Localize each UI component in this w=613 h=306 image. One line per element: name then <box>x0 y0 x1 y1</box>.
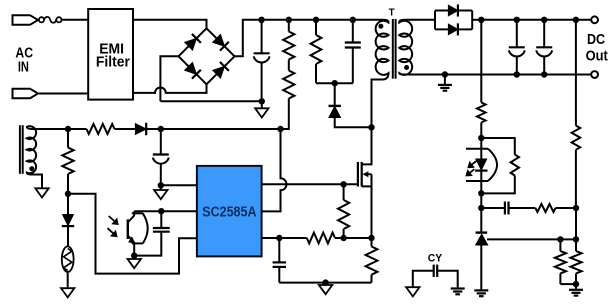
node <box>478 205 484 211</box>
aux divider resistor R11 <box>67 129 69 148</box>
wire <box>472 19 481 21</box>
wire <box>133 20 207 29</box>
wire <box>316 82 353 84</box>
node (source) <box>368 235 374 241</box>
node (drain) <box>368 124 374 130</box>
transformer core <box>392 19 394 79</box>
node <box>158 208 164 214</box>
wire <box>288 60 290 71</box>
wire (DC- rail) <box>405 74 592 76</box>
lower divider resistor R8 <box>559 239 561 251</box>
node (VDD) <box>277 126 283 132</box>
node <box>65 126 71 132</box>
svg-text:T: T <box>389 7 396 19</box>
wire (bridge plus riser) <box>235 20 384 57</box>
output diode D6 <box>448 5 458 16</box>
wire (LED bias from DC+) <box>480 20 482 103</box>
aux winding <box>27 126 42 188</box>
filter capacitor C4 <box>160 211 162 228</box>
wire (drain) <box>371 127 373 164</box>
gate-source resistor R12 <box>343 184 345 200</box>
wire <box>480 193 482 208</box>
node <box>478 135 484 141</box>
connector J1 (AC line) <box>13 15 39 25</box>
transformer T secondary winding <box>399 20 412 75</box>
ground (sense) <box>319 285 332 294</box>
node <box>573 205 579 211</box>
bridge diode D1 (upper-left) <box>184 34 201 51</box>
wire <box>67 227 69 247</box>
wire <box>405 19 436 21</box>
output diode D7 <box>448 24 458 35</box>
LED bias resistor R4 <box>477 103 486 123</box>
aux phasing dot <box>29 166 34 171</box>
startup resistor R1 <box>288 20 290 32</box>
wire <box>67 272 69 288</box>
VDD capacitor C3 <box>160 129 162 155</box>
svg-text:Filter: Filter <box>96 54 130 70</box>
upper divider resistor R7 <box>575 20 577 126</box>
wire (reference) <box>487 238 576 240</box>
sense resistor R14 <box>371 238 373 247</box>
node <box>442 71 448 77</box>
node <box>65 191 71 197</box>
wire (opto collector to IC) <box>134 210 197 212</box>
wire <box>62 19 89 21</box>
node (snubber C top) <box>350 17 356 23</box>
wire (DC+ rail) <box>481 19 591 21</box>
node <box>340 235 346 241</box>
fuse F1 <box>39 17 44 22</box>
svg-text:SC2585A: SC2585A <box>202 203 256 220</box>
bridge diamond wires <box>179 28 207 56</box>
DC+ terminal <box>591 16 598 23</box>
output capacitor C6 <box>543 20 545 48</box>
node <box>158 126 164 132</box>
ground (opto emitter) <box>133 256 135 259</box>
ground (CY primary side) <box>406 287 419 296</box>
Y-capacitor CY <box>433 265 435 277</box>
wire (VDD rail) <box>32 128 87 130</box>
optocoupler U2 LED <box>480 138 482 160</box>
node <box>514 17 520 23</box>
node (primary ground) <box>259 98 265 104</box>
EMI filter block <box>88 9 133 100</box>
wire (aux FB routing) <box>68 194 197 274</box>
node (snubber R top) <box>313 17 319 23</box>
shunt regulator U3 (TL431) <box>480 208 482 233</box>
ground (bottom left) <box>61 288 74 297</box>
ground (secondary) <box>444 75 446 85</box>
ground (VDD cap) <box>160 185 162 190</box>
node <box>514 71 520 77</box>
compensation resistor R6 <box>535 204 555 212</box>
primary phasing dot <box>378 24 383 29</box>
node <box>478 190 484 196</box>
node <box>541 17 547 23</box>
svg-text:IN: IN <box>18 59 29 75</box>
CS filter resistor R13 <box>307 233 335 244</box>
snubber capacitor C2 <box>352 20 354 43</box>
wire (VDD pin with hop) <box>262 129 287 211</box>
surge resistor RV1 <box>62 246 74 272</box>
node (bulk cap top) <box>258 17 264 23</box>
svg-text:Out: Out <box>586 49 608 65</box>
IC U1 SC2585A <box>197 166 262 257</box>
wire (gate drive) <box>262 183 358 185</box>
node <box>573 17 579 23</box>
bridge diode D3 (lower-left) <box>184 62 201 79</box>
snubber resistor R3 <box>315 20 317 35</box>
wire <box>146 128 280 130</box>
VDD series resistor R10 <box>87 124 115 134</box>
node <box>541 71 547 77</box>
ground (aux winding) <box>35 188 48 197</box>
bridge diode D2 (upper-right) <box>212 34 229 51</box>
wire <box>38 19 42 21</box>
startup resistor R2 <box>283 71 294 99</box>
wire <box>38 93 88 95</box>
compensation capacitor C7 <box>481 207 505 209</box>
optocoupler U2 phototransistor <box>127 219 129 239</box>
svg-text:DC: DC <box>587 32 606 48</box>
VDD diode D8 <box>135 124 146 135</box>
bulk capacitor C1 <box>261 20 263 54</box>
node (DC+ rail) <box>478 17 484 23</box>
node <box>573 281 579 287</box>
opto LED housing <box>466 148 488 150</box>
wire (EMI bottom to bridge, hop over) <box>133 84 207 93</box>
wire (bridge minus to primary ground) <box>160 56 178 101</box>
output diode branch box <box>434 11 436 30</box>
wire <box>115 128 136 130</box>
node <box>276 235 282 241</box>
node (startup resistors top) <box>286 17 292 23</box>
output capacitor C5 <box>516 20 518 48</box>
transformer T primary winding <box>372 20 389 128</box>
node (gate) <box>340 181 346 187</box>
ground (primary) <box>261 101 263 108</box>
lower divider resistor R9 <box>575 239 577 251</box>
node <box>573 236 579 242</box>
node <box>557 236 563 242</box>
ground (CY secondary side) <box>451 287 465 289</box>
wire <box>575 208 577 239</box>
wire <box>335 237 372 239</box>
wire (sense ground) <box>279 282 371 284</box>
DC- terminal <box>591 71 598 78</box>
node (opto emitter) <box>131 252 137 258</box>
MOSFET Q1 <box>357 162 359 187</box>
opto light arrows <box>109 216 114 221</box>
CS filter capacitor C8 <box>278 238 280 262</box>
node <box>322 279 328 285</box>
wire (CS pin) <box>262 237 307 239</box>
clamp diode D5 <box>334 83 336 105</box>
ground (divider) <box>575 284 577 290</box>
wire <box>560 283 576 285</box>
zener diode D9 <box>67 194 69 215</box>
aux winding core <box>19 125 21 174</box>
opto transistor housing <box>132 212 143 214</box>
wire <box>335 118 372 128</box>
node <box>158 182 164 188</box>
bridge diode D4 (lower-right) <box>212 62 229 79</box>
ground (TL431 anode) <box>474 289 488 291</box>
wire (IC GND pin) <box>161 184 197 186</box>
secondary phasing dot <box>404 65 409 70</box>
connector J2 (AC neutral) <box>13 89 39 99</box>
node (clamp) <box>332 80 338 86</box>
opto LED emission arrows <box>472 161 476 164</box>
opto LED parallel resistor R5 <box>481 138 515 155</box>
svg-text:CY: CY <box>428 253 443 265</box>
